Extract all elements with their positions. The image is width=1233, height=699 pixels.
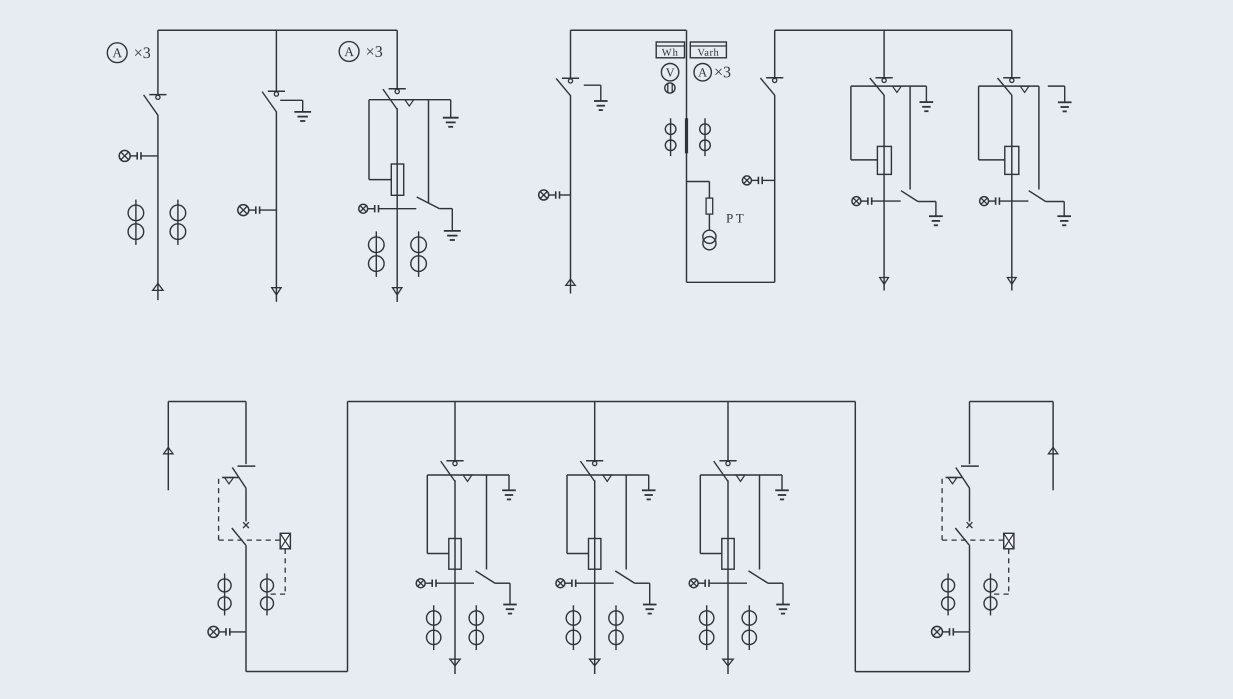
earthing switch (bottom feeder 2): [615, 475, 650, 583]
drawout marker (bay G): [1020, 86, 1029, 92]
ground (bay C top right): [443, 100, 459, 127]
disconnector QS (bay B): [262, 91, 285, 112]
current transformer (bottom feeder 1 left) (2 cores): [427, 605, 441, 650]
drawout marker (bay C): [405, 100, 414, 106]
disconnector QS (metering bay): [760, 78, 783, 96]
ground (bottom feeder 3 top right): [775, 475, 789, 499]
wire: bay F main: [883, 95, 885, 291]
svg-text:×3: ×3: [134, 45, 151, 62]
svg-text:×3: ×3: [366, 44, 383, 61]
current transformer (bottom-right incomer right) (2 cores): [984, 573, 997, 615]
earthing switch (bottom feeder 3): [749, 475, 784, 583]
arrow incoming (bottom-right incomer): [1048, 447, 1057, 454]
wire: bay C bus drop: [396, 30, 398, 89]
wire: drawout loop (bay C): [369, 100, 391, 180]
arrow outgoing (bay F): [880, 278, 889, 285]
disconnector QS (bay F): [870, 78, 893, 96]
wire: bay A main: [157, 115, 159, 300]
ammeter A x3 (bay A): [107, 43, 151, 63]
current transformer (bay C right) (2 cores): [411, 231, 427, 277]
ammeter A x3 (bay C): [339, 42, 383, 62]
wire: drawout loop (bay G): [979, 86, 1005, 160]
wire: bay A bus drop: [157, 30, 159, 94]
wire: bay B main: [275, 112, 277, 302]
wire: bay G bus drop: [1011, 30, 1013, 77]
current transformer (bottom-left incomer right) (2 cores): [261, 573, 274, 615]
switch blade 2 (bottom-left incomer): [232, 528, 246, 545]
circuit breaker QF (bottom feeder 3): [722, 539, 734, 570]
wire: drawout loop (bay F): [851, 86, 878, 160]
drawout marker (bottom feeder 3): [736, 475, 745, 481]
svg-text:Varh: Varh: [697, 48, 719, 59]
ground (bottom feeder 2 top right): [642, 475, 656, 499]
wire: earth branch (bay D): [584, 84, 601, 86]
svg-text:A: A: [698, 65, 707, 79]
wire: lower main (bottom-left incomer): [245, 545, 247, 671]
wire: bottom-right link: [855, 671, 969, 673]
arrow outgoing (bay C): [393, 288, 402, 295]
live-line indicator (bay A): [119, 150, 158, 161]
live-line indicator (bay C): [359, 204, 417, 213]
drawout tick (bottom-left incomer): [222, 477, 239, 479]
svg-text:P T: P T: [726, 210, 744, 225]
ground (bottom feeder 2 earthing switch): [643, 583, 657, 613]
interlock linkage 2 (dashed) (bottom-right incomer): [991, 549, 1009, 594]
wire: bus drop (bottom feeder 3): [727, 402, 729, 461]
live-line indicator (bottom-left incomer): [208, 626, 246, 637]
ground (bay F earthing switch): [929, 202, 943, 226]
wire: metering bay left riser: [686, 30, 688, 282]
bus 2 right segment (top-right group): [775, 29, 1012, 31]
wire: metering bay right riser lower: [774, 95, 776, 282]
ground (bay F top right): [920, 86, 934, 111]
wire: bay D bus drop: [570, 30, 572, 78]
earthing switch (bottom feeder 1): [476, 475, 511, 583]
circuit breaker QF (bay G): [1005, 146, 1019, 174]
contact mark x (bottom-right incomer): [967, 522, 973, 528]
disconnector QS (bay G): [998, 78, 1021, 96]
svg-text:V: V: [666, 65, 675, 79]
live-line indicator (bottom-right incomer): [932, 626, 970, 637]
current transformer (bay A right) (2 cores): [170, 200, 186, 245]
disconnector QS (bay D): [556, 78, 579, 96]
live-line indicator (bottom feeder 1): [416, 579, 474, 588]
live-line indicator (bay D): [539, 190, 571, 200]
svg-text:×3: ×3: [714, 64, 731, 81]
wire: drop (bottom-right incomer): [969, 402, 971, 465]
ground (bottom feeder 1 top right): [502, 475, 516, 499]
current transformer (metering right) (2 cores): [700, 118, 711, 156]
disconnector QS (bottom feeder 2): [580, 461, 603, 482]
current transformer (bottom feeder 2 right) (2 cores): [609, 605, 623, 650]
interlock linkage (dashed) (bottom-left incomer): [219, 479, 280, 540]
wire: main (bottom feeder 3): [727, 480, 729, 674]
CT primary (bold segment): [685, 118, 688, 153]
disconnector QS (bay C): [383, 89, 406, 110]
interlock linkage (dashed) (bottom-right incomer): [942, 479, 1003, 540]
arrow outgoing (bay G): [1007, 278, 1016, 285]
live-line indicator (bay F): [852, 197, 901, 206]
wire: bus drop (bottom feeder 1): [454, 402, 456, 461]
bus 3 (bottom group): [348, 401, 856, 403]
var-hour meter Varh: [690, 42, 726, 59]
circuit breaker QF (bottom feeder 2): [589, 539, 601, 570]
live-line indicator (bottom feeder 3): [689, 579, 747, 588]
arrow outgoing (bottom feeder 3): [723, 659, 733, 666]
svg-text:A: A: [112, 45, 122, 60]
wire: bottom enclosure left side: [347, 402, 349, 672]
wire: stub riser (bottom-right incomer): [1052, 402, 1054, 491]
wire: bottom-left link: [246, 671, 348, 673]
wire: bay B bus drop: [275, 30, 277, 91]
load-break switch (bottom-left incomer): [232, 466, 255, 488]
ground (bay G earthing switch): [1057, 202, 1071, 226]
disconnector QS (bottom feeder 1): [441, 461, 464, 482]
wire: bay F bus drop: [883, 30, 885, 77]
wire: metering bay right riser: [774, 30, 776, 77]
earthing switch (bay F): [901, 86, 936, 201]
current transformer (bottom-right incomer left) (2 cores): [942, 573, 955, 615]
wire: drawout loop (bottom feeder 3): [700, 475, 722, 554]
drawout marker (bottom feeder 1): [463, 475, 472, 481]
arrow outgoing (bay B): [272, 288, 281, 295]
load-break switch (bottom-right incomer): [956, 466, 979, 488]
arrow incoming (bay D): [566, 279, 575, 285]
interlock linkage 2 (dashed) (bottom-left incomer): [267, 549, 285, 594]
ground (bay D): [594, 85, 608, 110]
switch blade 2 (bottom-right incomer): [955, 528, 969, 545]
svg-text:Wh: Wh: [662, 48, 679, 59]
wire: drawout loop (bottom feeder 1): [427, 475, 449, 554]
arrow incoming (bottom-left incomer): [164, 447, 173, 454]
wire: cross link (bay C): [369, 99, 451, 101]
live-line indicator (bottom feeder 2): [556, 579, 614, 588]
current transformer (bottom-left incomer left) (2 cores): [218, 573, 231, 615]
ground (bottom feeder 1 earthing switch): [503, 583, 517, 613]
voltmeter V: [661, 63, 678, 80]
wire: cross link (bottom feeder 3): [700, 474, 782, 476]
current transformer (bottom feeder 1 right) (2 cores): [469, 605, 483, 650]
arrow outgoing (bottom feeder 1): [450, 659, 460, 666]
live-line indicator (bay B): [238, 205, 277, 216]
wire: bay G main: [1011, 95, 1013, 291]
ammeter A (metering): [694, 63, 711, 80]
current transformer (metering left) (2 cores): [665, 118, 676, 156]
wire: switch to fuse link (bottom-left incomer): [245, 488, 247, 521]
drawout marker (bottom-right incomer): [948, 478, 957, 484]
wire: cross link (bay F): [851, 85, 927, 87]
disconnector QS (bay A): [144, 95, 167, 116]
current transformer (bottom feeder 2 left) (2 cores): [566, 605, 580, 650]
PT fuse: [706, 198, 713, 214]
drawout marker (bottom-left incomer): [225, 478, 234, 484]
wire: drawout loop (bottom feeder 2): [567, 475, 589, 554]
wire: stub riser (bottom-left incomer): [167, 402, 169, 491]
drawout marker (bottom feeder 2): [603, 475, 612, 481]
ground (bay G top right): [1058, 86, 1072, 111]
wire: bay D main: [570, 95, 572, 293]
contact mark x (bottom-left incomer): [243, 522, 249, 528]
current transformer (bay C left) (2 cores): [369, 231, 385, 277]
earthing switch (bay G): [1029, 86, 1065, 201]
ground (bay B): [294, 100, 311, 121]
wire: bottom enclosure right side: [854, 402, 856, 672]
arrow outgoing (bottom feeder 2): [590, 659, 600, 666]
wire: switch to fuse link (bottom-right incomer): [969, 488, 971, 521]
drawout marker (bay F): [893, 86, 902, 92]
wire: metering bay bottom link: [687, 281, 775, 283]
circuit breaker QF (bay C): [391, 164, 403, 195]
bus 2 left segment (top-right group): [571, 29, 687, 31]
wire: bay C main: [396, 108, 398, 302]
impulse counter: [665, 83, 675, 93]
earthing switch (bay C): [417, 100, 453, 209]
wire: cross link (bay G): [979, 85, 1039, 87]
live-line indicator (bay G): [980, 197, 1029, 206]
interlock fuse box (bottom-left incomer): [280, 533, 290, 549]
circuit breaker QF (bay F): [877, 146, 891, 174]
ground (bottom feeder 3 earthing switch): [776, 583, 790, 613]
ground (bay C earthing switch): [444, 209, 461, 240]
interlock fuse box (bottom-right incomer): [1004, 533, 1014, 549]
wire: PT branch: [687, 182, 710, 199]
wire: earth stub (bay G): [1048, 85, 1065, 87]
circuit breaker QF (bottom feeder 1): [449, 539, 461, 570]
wire: drop (bottom-left incomer): [245, 402, 247, 465]
current transformer (bottom feeder 3 right) (2 cores): [742, 605, 756, 650]
wire: cross link (bottom feeder 2): [567, 474, 649, 476]
voltage transformer PT: [703, 230, 716, 250]
wire: fuse to PT: [708, 214, 710, 230]
watt-hour meter Wh: [656, 42, 684, 59]
disconnector QS (bottom feeder 3): [714, 461, 737, 482]
wire: top link (bottom-left incomer): [168, 401, 246, 403]
bus 1 (top-left group): [158, 29, 397, 31]
wire: lower main (bottom-right incomer): [969, 545, 971, 671]
current transformer (bottom feeder 3 left) (2 cores): [700, 605, 714, 650]
current transformer (bay A left) (2 cores): [128, 200, 144, 245]
wire: cross link (bottom feeder 1): [427, 474, 509, 476]
arrow incoming (bay A): [153, 283, 163, 290]
wire: main (bottom feeder 2): [594, 480, 596, 674]
wire: main (bottom feeder 1): [454, 480, 456, 674]
live-line indicator (metering): [742, 176, 774, 185]
svg-text:A: A: [344, 44, 354, 59]
wire: earth branch (bay B): [280, 99, 303, 101]
drawout tick (bottom-right incomer): [946, 477, 963, 479]
wire: top link (bottom-right incomer): [970, 401, 1054, 403]
wire: bus drop (bottom feeder 2): [594, 402, 596, 461]
